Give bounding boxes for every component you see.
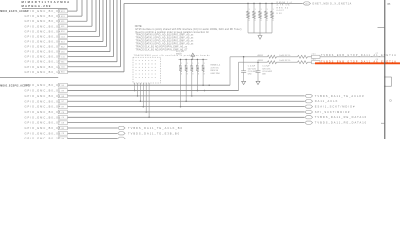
svg-text:8: 8	[204, 74, 205, 76]
svg-text:C=A 4.3K 5%: C=A 4.3K 5%	[279, 54, 291, 57]
svg-text:DNI: DNI	[262, 74, 266, 76]
svg-text:GPIO_EMC_B0_05: GPIO_EMC_B0_05	[25, 34, 62, 38]
svg-text:8: 8	[181, 74, 182, 76]
svg-text:GPIO_EMC_B0_03: GPIO_EMC_B0_03	[25, 99, 62, 103]
svg-text:GPIO_EMC_B0_11: GPIO_EMC_B0_11	[25, 65, 61, 69]
svg-text:2 4 0: 2 4 0	[312, 54, 316, 56]
svg-text:TVBDS_DA11_TE_ACLK_B0: TVBDS_DA11_TE_ACLK_B0	[128, 126, 183, 130]
svg-text:B10: B10	[61, 72, 65, 74]
svg-text:RM4B: RM4B	[176, 53, 182, 55]
svg-text:4.7K 5%: 4.7K 5%	[211, 67, 219, 69]
svg-text:ENET_MDIO_X_ENET1A: ENET_MDIO_X_ENET1A	[313, 2, 352, 5]
svg-text:TVBDS_DA11_RE_DATA10: TVBDS_DA11_RE_DATA10	[315, 115, 367, 119]
svg-text:2 4 0: 2 4 0	[312, 59, 316, 61]
svg-text:1: 1	[204, 63, 205, 65]
svg-text:D8: D8	[62, 123, 65, 125]
svg-text:E9: E9	[62, 90, 65, 92]
svg-text:1: 1	[181, 63, 182, 65]
svg-text:4.7K 5%: 4.7K 5%	[277, 5, 291, 7]
svg-text:GPIO_EMC_B0_04: GPIO_EMC_B0_04	[25, 29, 62, 33]
svg-text:GPIO_EMC_B0_02: GPIO_EMC_B0_02	[25, 19, 62, 23]
svg-text:GPIO_EMC_B0_06: GPIO_EMC_B0_06	[25, 115, 62, 119]
svg-text:Need to confirm a position ord: Need to confirm a position order to keep…	[136, 31, 210, 34]
svg-text:8: 8	[255, 20, 256, 22]
svg-text:AB30V: AB30V	[258, 54, 264, 57]
svg-text:B12: B12	[61, 46, 65, 48]
svg-text:C7: C7	[376, 53, 378, 55]
svg-text:MAPBGA-289: MAPBGA-289	[22, 4, 52, 8]
svg-text:GPIO_EMC_B0_03: GPIO_EMC_B0_03	[25, 24, 62, 28]
svg-text:8: 8	[261, 20, 262, 22]
svg-text:TRACE/DATA0 (GPIO_AD_B1)/GPIO_: TRACE/DATA0 (GPIO_AD_B1)/GPIO_EMF_A0_xx	[136, 34, 195, 37]
svg-text:TVBDS_ENB_GTOP_DA11_A6_ENET1A: TVBDS_ENB_GTOP_DA11_A6_ENET1A	[321, 60, 397, 63]
svg-text:GPIO_EMC_B0_04: GPIO_EMC_B0_04	[25, 105, 62, 109]
svg-text:GPIO_EMC_B0_09: GPIO_EMC_B0_09	[25, 55, 62, 59]
svg-text:E13: E13	[61, 11, 65, 13]
svg-text:C 4.7pF: C 4.7pF	[248, 66, 256, 68]
svg-text:50V 10%: 50V 10%	[248, 68, 256, 70]
svg-text:TVBDS_DA11_RE_DATA10: TVBDS_DA11_RE_DATA10	[315, 121, 367, 125]
svg-text:E7: E7	[62, 106, 65, 108]
svg-text:1: 1	[249, 9, 250, 11]
svg-text:240: 240	[305, 3, 308, 5]
svg-text:8: 8	[187, 74, 188, 76]
svg-text:MDIO_ECSPI2_ACSPI2: MDIO_ECSPI2_ACSPI2	[0, 84, 30, 87]
svg-text:RES X4: RES X4	[277, 7, 289, 9]
svg-text:DNI: DNI	[277, 13, 283, 15]
svg-text:C6: C6	[62, 117, 65, 119]
svg-text:RM4A 1-4: RM4A 1-4	[277, 1, 293, 4]
svg-text:1: 1	[261, 9, 262, 11]
svg-text:1: 1	[273, 9, 274, 11]
svg-text:8: 8	[273, 20, 274, 22]
svg-text:GPIO_EMC_B0_08: GPIO_EMC_B0_08	[25, 126, 62, 130]
svg-text:0402: 0402	[277, 10, 285, 12]
svg-text:B11: B11	[61, 62, 65, 64]
svg-text:50V 10%: 50V 10%	[262, 68, 270, 70]
svg-text:ETM interface is jointly share: ETM interface is jointly shared with DSI…	[136, 28, 242, 31]
svg-text:C10: C10	[61, 67, 66, 69]
svg-text:GPIO_EMC_B0_10: GPIO_EMC_B0_10	[25, 60, 62, 64]
svg-text:C8: C8	[62, 112, 65, 114]
svg-text:1: 1	[267, 9, 268, 11]
svg-text:GPIO_EMC_B0_01: GPIO_EMC_B0_01	[25, 89, 62, 93]
svg-text:GPIO_EMC_B0_00: GPIO_EMC_B0_00	[25, 9, 62, 13]
svg-text:GPIO_EMC_B0_05: GPIO_EMC_B0_05	[25, 110, 62, 114]
svg-text:TRACE/DATA2 (GPIO_AD_B1)/GPIO_: TRACE/DATA2 (GPIO_AD_B1)/GPIO_EMF_A0_xx	[136, 40, 195, 43]
svg-text:1: 1	[198, 63, 199, 65]
svg-text:NOTE:: NOTE:	[135, 25, 143, 28]
svg-text:DNI: DNI	[248, 74, 252, 76]
svg-text:TVBDS_DA11_TE_E3B_B0: TVBDS_DA11_TE_E3B_B0	[128, 131, 180, 135]
svg-text:1: 1	[192, 63, 193, 65]
svg-text:B5: B5	[388, 4, 392, 6]
svg-text:SPI_SCKT/MDIO#: SPI_SCKT/MDIO#	[315, 110, 350, 114]
svg-text:C=A 4.3K 5%: C=A 4.3K 5%	[279, 59, 291, 62]
svg-text:C8: C8	[62, 133, 65, 135]
svg-text:1: 1	[255, 9, 256, 11]
svg-text:TRACE/CLK_B1 ADJ/GPIO/PIN_EMF_: TRACE/CLK_B1 ADJ/GPIO/PIN_EMF_A0_xx	[136, 46, 188, 49]
svg-text:GPIO_EMC_B0_02: GPIO_EMC_B0_02	[25, 94, 62, 98]
svg-text:0402 DNI: 0402 DNI	[211, 73, 220, 75]
svg-text:GPIO_EMC_B0_07: GPIO_EMC_B0_07	[25, 121, 62, 125]
svg-text:C6: C6	[376, 59, 378, 61]
svg-text:GPIO_EMC_B0_12: GPIO_EMC_B0_12	[25, 70, 62, 74]
svg-text:RM4B 1-4: RM4B 1-4	[211, 64, 221, 66]
svg-text:GPIO_EMC_B0_06: GPIO_EMC_B0_06	[25, 39, 62, 43]
svg-text:GPIO_EMC_B0_10: GPIO_EMC_B0_10	[25, 137, 62, 139]
svg-text:ESAI1_SCKT/MDIO#: ESAI1_SCKT/MDIO#	[315, 105, 356, 109]
svg-text:COG 0402: COG 0402	[262, 71, 273, 73]
svg-text:E7: E7	[62, 101, 65, 103]
svg-text:MDIO_ECAT1_ACAT2: MDIO_ECAT1_ACAT2	[0, 10, 28, 13]
svg-text:TRACE/DATA1 (GPIO_AD_B1)/GPIO_: TRACE/DATA1 (GPIO_AD_B1)/GPIO_EMF_A0_xx	[136, 37, 195, 40]
svg-text:C 4.7pF: C 4.7pF	[262, 66, 270, 68]
svg-text:8: 8	[267, 20, 268, 22]
svg-text:8: 8	[198, 74, 199, 76]
svg-text:D: D	[390, 98, 393, 102]
svg-text:TRACE/DATA3 (GPIO_AD_B1)/GPIO_: TRACE/DATA3 (GPIO_AD_B1)/GPIO_EMF_A0_xx	[136, 43, 195, 46]
svg-text:GPIO_EMC_B0_08: GPIO_EMC_B0_08	[25, 50, 62, 54]
svg-text:8: 8	[192, 74, 193, 76]
svg-text:E9: E9	[62, 85, 65, 87]
svg-text:RES X4: RES X4	[211, 70, 219, 72]
svg-text:GPIO_EMC_B0_07: GPIO_EMC_B0_07	[25, 45, 62, 49]
svg-text:E8: E8	[62, 96, 65, 98]
svg-text:1: 1	[187, 63, 188, 65]
svg-text:DA11_ACLK: DA11_ACLK	[315, 99, 339, 103]
svg-text:8: 8	[249, 20, 250, 22]
svg-text:TVBDS_DA11_TE_ACLK#: TVBDS_DA11_TE_ACLK#	[315, 94, 365, 98]
svg-text:TRACE/SWO port c/b available i: TRACE/SWO port c/b available in producti…	[134, 54, 211, 57]
svg-text:GPIO_EMC_B0_01: GPIO_EMC_B0_01	[25, 14, 62, 18]
svg-text:GPIO_EMC_B0_09: GPIO_EMC_B0_09	[25, 131, 62, 135]
